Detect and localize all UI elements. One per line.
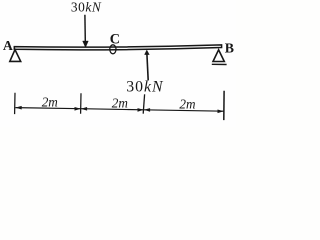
ground line under B support [212,63,227,65]
dimension line span 2 [81,109,144,110]
svg-text:2m: 2m [42,94,58,109]
dimension line span 1 (A to 2) [15,108,80,109]
svg-text:30kN: 30kN [71,0,102,14]
dim arrowhead right of span 1 [75,107,81,111]
svg-text:B: B [225,40,234,55]
downward load arrow at 30kN (top) [84,15,86,42]
dim arrowhead right of span 2 [138,108,144,112]
roller support at B (triangle) [213,50,224,62]
svg-text:2m: 2m [179,97,195,112]
svg-text:A: A [3,38,13,53]
beam AB (double-line member) [14,45,221,50]
dim arrowhead left of span 2 [81,107,87,111]
dimension extension tick at B [223,91,225,120]
dimension extension tick at A [14,93,16,114]
dimension extension tick 2 [80,93,82,114]
upward load arrow at C-right [147,54,148,81]
svg-text:30kN: 30kN [126,78,164,95]
dim arrowhead right of span 3 [218,110,224,114]
dimension extension tick 3 [143,94,144,113]
dim arrowhead left of span 1 [15,106,21,110]
dim arrowhead left of span 3 [144,108,150,112]
dimension line span 3 [144,110,224,111]
hinge circle at C [110,45,116,54]
svg-text:2m: 2m [112,96,128,111]
pin support at A (triangle) [10,50,21,62]
